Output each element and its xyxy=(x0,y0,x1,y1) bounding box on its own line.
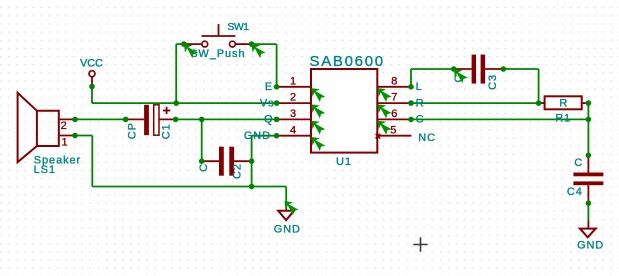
wire R pin to R1 xyxy=(411,102,539,104)
wire VCC to Vs pin xyxy=(92,102,277,104)
junction (276.6,103.1) xyxy=(274,100,280,106)
svg-text:Vs: Vs xyxy=(260,97,275,109)
svg-text:C1: C1 xyxy=(160,123,172,139)
pin 1 E xyxy=(277,86,311,88)
junction (175.6,119.4) xyxy=(173,117,179,123)
svg-text:C: C xyxy=(574,157,583,169)
svg-text:1: 1 xyxy=(61,136,67,148)
ERC marker arrow at U1 pin 7 xyxy=(378,104,392,118)
capacitor C2 xyxy=(198,147,251,179)
wire R1 right down to C4 xyxy=(587,103,589,155)
junction (588.4,155.3) xyxy=(586,153,592,159)
junction (411,103.1) xyxy=(408,100,414,106)
ERC marker arrow at SW1 left xyxy=(184,44,198,58)
svg-text:C2: C2 xyxy=(232,163,244,179)
junction (176.2,103.1) xyxy=(173,100,179,106)
wire C2 right vertical xyxy=(251,136,253,187)
wire speaker pin2 to CP xyxy=(75,118,126,120)
speaker LS1 xyxy=(18,93,81,176)
junction (411,86.8) xyxy=(408,84,414,90)
wire Q branch down to C2 xyxy=(201,119,203,161)
wire pin1 down xyxy=(91,136,93,187)
wire GND pin4 to corner xyxy=(252,135,277,137)
junction (411,119.4) xyxy=(408,117,414,123)
svg-text:GND: GND xyxy=(244,130,271,142)
svg-text:2: 2 xyxy=(61,120,67,132)
svg-text:C4: C4 xyxy=(567,186,583,198)
svg-text:Q: Q xyxy=(264,114,273,126)
svg-text:4: 4 xyxy=(290,124,296,136)
wire C3 right xyxy=(503,68,538,70)
svg-text:R1: R1 xyxy=(555,113,571,125)
svg-text:R: R xyxy=(559,98,568,110)
svg-text:6: 6 xyxy=(391,108,397,120)
no-connect X pin5 xyxy=(376,134,381,139)
junction (75,119.4) xyxy=(72,117,78,123)
ERC marker arrow at U1 pin 3 xyxy=(311,121,325,135)
wire L pin up xyxy=(410,69,412,87)
wire SW1 left stub xyxy=(176,43,184,45)
svg-text:VCC: VCC xyxy=(80,58,103,70)
svg-text:CP: CP xyxy=(126,122,138,139)
capacitor CP C1 (polarized) xyxy=(126,105,176,139)
svg-text:E: E xyxy=(265,81,273,93)
pin 7 R xyxy=(377,102,411,104)
svg-text:GND: GND xyxy=(274,224,301,236)
ground GND1 xyxy=(274,203,301,236)
wire SW1 right to corner xyxy=(252,43,277,45)
switch SW1 SW_Push xyxy=(184,21,252,60)
ERC marker arrow at U1 pin 6 xyxy=(378,121,392,135)
svg-text:5: 5 xyxy=(390,124,396,136)
capacitor C4 xyxy=(567,155,604,203)
svg-text:8: 8 xyxy=(391,75,397,87)
wire VCC vertical xyxy=(91,87,93,104)
IC U1 SAB0600 xyxy=(244,53,436,168)
capacitor C3 xyxy=(453,55,503,90)
junction (183.9,44.1) xyxy=(181,41,187,47)
junction (276.6,86.8) xyxy=(274,84,280,90)
wire down to GND1 xyxy=(285,187,287,204)
wire down to E pin xyxy=(276,44,278,87)
svg-text:7: 7 xyxy=(391,92,397,104)
ground GND2 xyxy=(577,221,604,252)
wire C pin to junction xyxy=(411,118,588,120)
junction (201.7,119.4) xyxy=(199,117,205,123)
cursor crosshair xyxy=(413,237,427,251)
svg-text:NC: NC xyxy=(418,132,436,144)
svg-text:C: C xyxy=(198,163,210,172)
pin 5 NC xyxy=(377,135,411,137)
ERC marker arrow at U1 pin 8 xyxy=(378,88,392,102)
svg-text:2: 2 xyxy=(290,92,296,104)
svg-text:U1: U1 xyxy=(336,156,352,168)
junction (92,86.5) xyxy=(89,84,95,90)
svg-text:3: 3 xyxy=(290,108,296,120)
ERC marker arrow at U1 pin 2 xyxy=(311,104,325,118)
svg-text:SAB0600: SAB0600 xyxy=(310,53,385,70)
wire L to C3 xyxy=(411,68,454,70)
junction (251.6,186.5) xyxy=(249,184,255,190)
junction (453.8,69) xyxy=(451,66,457,72)
svg-text:LS1: LS1 xyxy=(34,164,56,176)
junction (125.7,119.4) xyxy=(123,117,129,123)
pin 4 GND xyxy=(277,135,311,137)
ERC marker arrow at U1 pin 1 xyxy=(311,88,325,102)
pin 6 C xyxy=(377,118,411,120)
wire C4 bottom to GND2 xyxy=(587,203,589,221)
ERC marker arrow at GND xyxy=(285,201,299,215)
ERC marker arrow at SW1 right xyxy=(252,44,266,58)
junction (75,135.5) xyxy=(72,133,78,139)
svg-text:L: L xyxy=(416,81,423,93)
ERC marker arrow at C3 xyxy=(454,69,468,83)
pin 8 L xyxy=(377,86,411,88)
wire C1 to Q pin xyxy=(176,118,277,120)
junction (201.7,161.2) xyxy=(199,158,205,164)
junction (588.4,119.4) xyxy=(586,117,592,123)
junction (588.4,103.1) xyxy=(586,100,592,106)
junction (251.5,44.1) xyxy=(249,41,255,47)
junction (276.6,119.4) xyxy=(274,117,280,123)
junction (588.4,203.2) xyxy=(586,200,592,206)
junction (251.6,161.2) xyxy=(249,158,255,164)
wire C3 branch down xyxy=(538,69,540,103)
svg-text:GND: GND xyxy=(577,240,604,252)
wire bottom horizontal xyxy=(92,186,286,188)
ERC marker arrow at U1 pin 4 xyxy=(311,137,325,151)
junction (503.4,69) xyxy=(501,66,507,72)
power symbol VCC xyxy=(80,58,103,87)
svg-text:SW_Push: SW_Push xyxy=(190,48,245,60)
resistor R1 xyxy=(539,96,589,124)
junction (276.6,135.7) xyxy=(274,133,280,139)
pin 2 Vs xyxy=(277,102,311,104)
wire speaker pin1 xyxy=(75,135,92,137)
svg-text:C: C xyxy=(416,114,425,126)
svg-text:C3: C3 xyxy=(487,74,499,90)
junction (538.6,103.1) xyxy=(536,100,542,106)
ERC arrow markers xyxy=(184,44,468,215)
svg-text:SW1: SW1 xyxy=(227,21,249,33)
pin 3 Q xyxy=(277,118,311,120)
svg-text:R: R xyxy=(416,97,425,109)
svg-text:1: 1 xyxy=(290,75,296,87)
wire SW1 left branch down xyxy=(175,44,177,103)
